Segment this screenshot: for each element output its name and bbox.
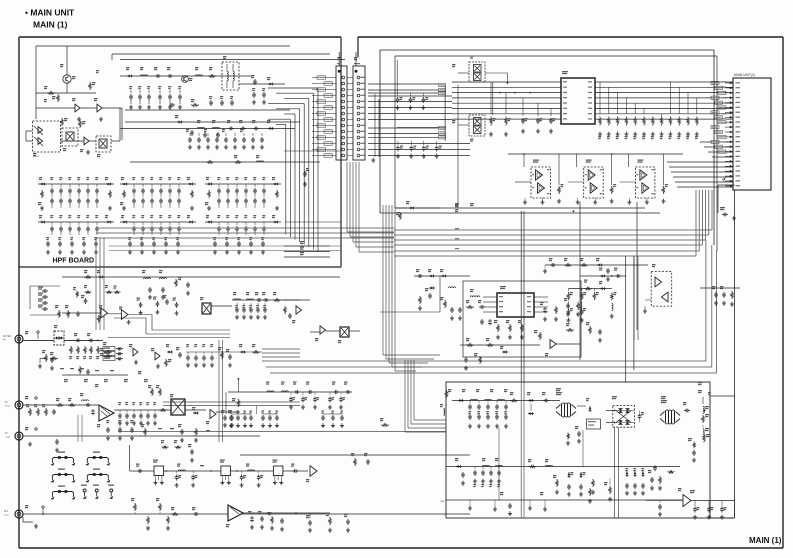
- svg-text:(cap): (cap): [5, 437, 10, 439]
- svg-text:HPF BOARD: HPF BOARD: [53, 258, 95, 265]
- svg-text:BHF: BHF: [441, 501, 446, 503]
- svg-text:UACA: UACA: [33, 155, 39, 158]
- svg-text:input: input: [4, 514, 9, 517]
- svg-text:IN: IN: [5, 432, 8, 435]
- svg-text:(Phn): (Phn): [5, 406, 11, 408]
- svg-text:• MAIN UNIT: • MAIN UNIT: [25, 8, 75, 18]
- svg-text:MAIN UNIT(2): MAIN UNIT(2): [734, 73, 755, 77]
- svg-text:MAIN (1): MAIN (1): [33, 20, 68, 30]
- svg-text:IN: IN: [3, 339, 6, 342]
- svg-text:IN: IN: [5, 401, 8, 404]
- svg-text:MAIN (1): MAIN (1): [749, 536, 782, 545]
- svg-text:PLL: PLL: [4, 510, 9, 513]
